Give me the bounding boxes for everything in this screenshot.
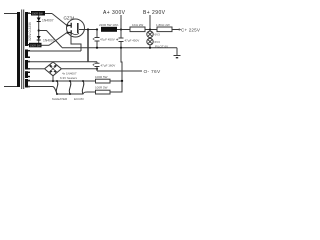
svg-text:47µF 450V: 47µF 450V: [100, 38, 115, 42]
svg-text:47µF 450V: 47µF 450V: [125, 39, 140, 43]
tube cathode bar: [77, 23, 79, 33]
wire heater/bias feed line: [28, 61, 97, 63]
node A+ tap: [120, 28, 122, 30]
resistor R2: [29, 43, 42, 48]
ground symbol: [174, 48, 181, 56]
node junction: [38, 29, 40, 31]
wire to diagonal 2: [42, 44, 50, 46]
diode D1: [37, 18, 41, 23]
svg-text:150R 5W: 150R 5W: [30, 43, 41, 47]
svg-text:100R 5W: 100R 5W: [95, 75, 108, 79]
arrow C+: [179, 28, 182, 30]
wire rail: [145, 29, 157, 31]
wire bridge bottom out: [52, 76, 54, 81]
wire bridge right out: [62, 68, 97, 70]
transformer aux winding: [25, 71, 30, 78]
resistor R4: [130, 27, 145, 32]
tube plate wedge 2: [67, 31, 70, 34]
capacitor C3: [95, 63, 100, 71]
resistor R3: [101, 27, 117, 32]
wire lamps to ground: [149, 45, 151, 48]
svg-text:1KΩ 2W: 1KΩ 2W: [132, 23, 143, 27]
wire filament drop: [87, 30, 89, 62]
wire A+ tap up: [120, 15, 122, 30]
wire heater line 1: [28, 80, 96, 82]
wire diagonal to plate 1: [52, 14, 67, 26]
transformer heater winding: [25, 79, 30, 88]
wire feed drop: [96, 62, 98, 63]
bridge BR1: [45, 62, 62, 76]
wire to diagonal: [45, 13, 52, 15]
wire B+ tap up: [149, 15, 151, 30]
capacitor C1: [95, 30, 100, 48]
lamp LP2: [147, 38, 153, 44]
tube plate wedge 1: [67, 24, 70, 27]
wire cap2 below ground: [121, 48, 122, 81]
svg-text:O- 76V: O- 76V: [144, 69, 161, 75]
lamp LP1: [147, 31, 153, 37]
wire R7 out up: [110, 81, 122, 92]
wire to C+: [172, 29, 180, 31]
svg-text:1N4007: 1N4007: [43, 38, 55, 42]
resistor R7: [96, 90, 111, 94]
svg-text:6.3V heaters: 6.3V heaters: [60, 76, 78, 80]
node lamps ground: [149, 47, 151, 49]
tube V1 GZ34 envelope: [67, 19, 85, 37]
resistor R5: [157, 27, 172, 32]
wire diagonal to plate 2: [49, 33, 67, 46]
svg-text:A+ 300V: A+ 300V: [103, 10, 126, 16]
resistor R1: [31, 11, 45, 16]
wire elbow to ground diagonal: [39, 31, 62, 48]
svg-text:220R 5W 10%: 220R 5W 10%: [99, 23, 119, 27]
wire HT top: [28, 13, 31, 15]
capacitor C2: [119, 30, 124, 48]
svg-text:C+ 225V: C+ 225V: [181, 27, 200, 32]
svg-text:4x 1N4007: 4x 1N4007: [62, 72, 77, 76]
svg-text:150R 5W: 150R 5W: [32, 12, 43, 16]
wire O- line: [97, 70, 142, 72]
wire diode chain vertical: [38, 16, 40, 44]
tube filament arc: [72, 33, 79, 35]
node cathode junction: [87, 28, 89, 30]
svg-text:100R 5W: 100R 5W: [95, 86, 108, 90]
wire mains top: [4, 13, 17, 15]
svg-text:6V3: 6V3: [155, 33, 161, 37]
transformer bias winding: [25, 60, 30, 70]
resistor R6: [96, 79, 111, 83]
svg-text:ECC83: ECC83: [74, 97, 84, 101]
wire mains bottom: [4, 86, 17, 88]
svg-text:GZ34: GZ34: [64, 16, 76, 21]
tube plate 2: [67, 30, 71, 35]
wire ground rail: [62, 47, 177, 49]
wire 5V line A: [28, 50, 81, 52]
node cap2 ground: [120, 47, 122, 49]
wire heater line 2: [28, 87, 96, 95]
wire bias left line: [28, 68, 44, 70]
node bridge heater join: [52, 80, 54, 82]
transformer T1 primary bar: [17, 12, 20, 87]
twist crossover 3: [82, 81, 84, 94]
svg-text:6V3: 6V3: [155, 40, 161, 44]
tube plate 1: [67, 23, 71, 28]
wire HT bottom: [28, 44, 29, 46]
node rail cap1: [96, 28, 98, 30]
svg-text:PILOT 6V: PILOT 6V: [155, 45, 168, 49]
wire rail: [117, 29, 130, 31]
svg-text:325V-0-325V: 325V-0-325V: [28, 21, 32, 41]
svg-text:6xHEATER: 6xHEATER: [52, 97, 68, 101]
svg-text:1N4007: 1N4007: [42, 19, 54, 23]
svg-text:B+ 290V: B+ 290V: [143, 10, 166, 16]
transformer core: [22, 10, 24, 90]
transformer HT winding: [25, 12, 30, 46]
svg-text:1.8KΩ 2W: 1.8KΩ 2W: [156, 23, 170, 27]
svg-text:47µF 160V: 47µF 160V: [101, 64, 116, 68]
node B+ tap: [149, 28, 151, 30]
diode D2: [37, 36, 41, 41]
node humdinger: [121, 80, 123, 82]
twist crossover 2: [69, 81, 71, 94]
transformer 5V winding: [25, 50, 30, 59]
node bias cap join: [96, 68, 98, 70]
node cap1 ground: [96, 47, 98, 49]
wire cathode to rail: [79, 29, 97, 31]
wire filament L path: [71, 36, 81, 51]
twist crossover 1: [56, 81, 58, 94]
wire R6 out: [110, 80, 122, 82]
